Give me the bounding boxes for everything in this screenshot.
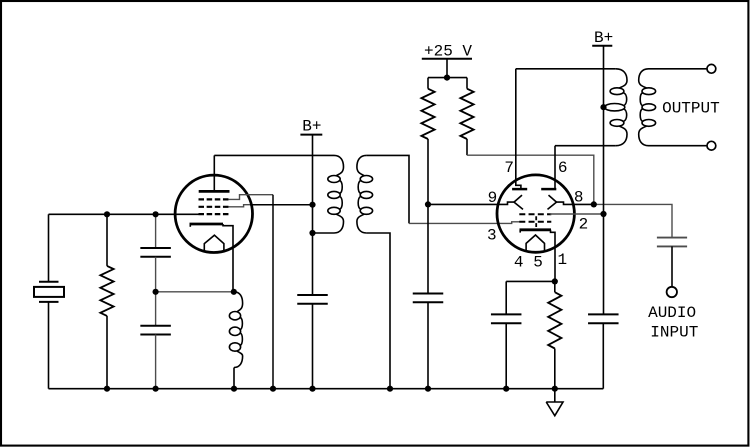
svg-text:6: 6: [558, 159, 568, 177]
svg-text:8: 8: [574, 189, 584, 207]
svg-text:4: 4: [514, 254, 524, 272]
svg-text:+25 V: +25 V: [424, 42, 472, 60]
svg-text:INPUT: INPUT: [650, 324, 698, 342]
svg-text:B+: B+: [302, 118, 321, 136]
svg-text:5: 5: [533, 253, 543, 271]
svg-text:2: 2: [579, 216, 589, 234]
svg-text:9: 9: [488, 189, 498, 207]
svg-text:AUDIO: AUDIO: [648, 304, 696, 322]
svg-text:7: 7: [504, 159, 514, 177]
svg-text:OUTPUT: OUTPUT: [662, 100, 720, 118]
svg-text:3: 3: [487, 226, 497, 244]
svg-text:1: 1: [558, 251, 568, 269]
svg-text:B+: B+: [594, 29, 613, 47]
